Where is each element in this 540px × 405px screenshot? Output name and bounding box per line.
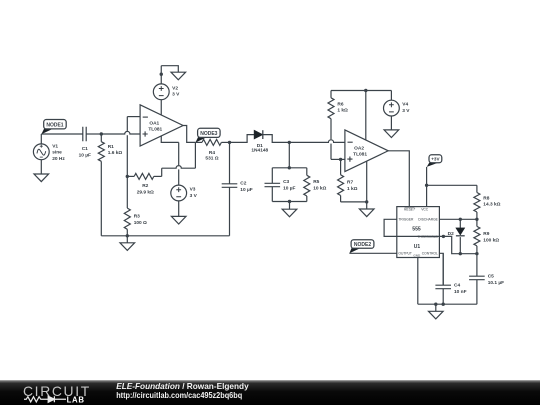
svg-text:R2: R2 [142, 183, 148, 189]
junction dot R9 bottom / C5 top [475, 252, 478, 255]
resistor R2 29.9 kOhm [127, 173, 161, 195]
svg-text:THRESHOLD: THRESHOLD [418, 235, 439, 239]
voltage source V1 sine 20 Hz [0, 0, 65, 162]
wire feedback vertical upper piece [126, 117, 128, 131]
junction dot R3 bottom on rail [126, 234, 129, 237]
wire OA2 V- pin [366, 161, 368, 202]
wire V4 top [390, 91, 392, 101]
svg-text:10 kΩ: 10 kΩ [313, 185, 326, 191]
node NODE2 [349, 240, 374, 254]
svg-text:C5: C5 [488, 274, 494, 280]
junction dot R7 top [339, 158, 342, 161]
resistor R1 1.6 kOhm [98, 134, 122, 236]
svg-text:1 kΩ: 1 kΩ [347, 186, 358, 192]
resistor R4 531 Ohm [195, 139, 229, 161]
svg-text:GND: GND [413, 254, 421, 258]
wire feedback vertical to R2/R3 node [126, 135, 128, 176]
wire tap down to C3/R5 rail [288, 142, 290, 167]
svg-text:100 kΩ: 100 kΩ [483, 237, 499, 243]
wire V3 bottom to ground [178, 201, 180, 217]
junction dot R8/R9 [475, 218, 478, 221]
wire top +3V rail [331, 90, 391, 92]
svg-text:1N4148: 1N4148 [251, 147, 268, 153]
junction dot OA2 V- ground node [365, 200, 368, 203]
svg-text:C3: C3 [283, 179, 289, 185]
svg-text:1 kΩ: 1 kΩ [337, 108, 348, 114]
wire R6 bottom to OA2 plus input [331, 158, 345, 160]
wire +3V branch to R8 [427, 184, 477, 186]
wire OA2 V+ pin [365, 91, 367, 141]
wire V4 bottom to ground [390, 116, 392, 130]
svg-text:TL081: TL081 [353, 152, 367, 158]
wire V2 top to corner [160, 66, 162, 84]
svg-text:10 µF: 10 µF [240, 187, 252, 193]
ground at V1 [34, 174, 49, 182]
svg-text:C2: C2 [240, 181, 246, 187]
svg-text:TRIGGER: TRIGGER [398, 218, 414, 222]
junction dot ground tap on rail [434, 303, 437, 306]
svg-text:R3: R3 [134, 214, 140, 220]
svg-text:C1: C1 [82, 146, 88, 152]
svg-text:10 nF: 10 nF [454, 289, 467, 295]
svg-text:NODE3: NODE3 [200, 131, 217, 137]
wire 555 GND pin [417, 258, 419, 305]
ground at 555 rail [429, 304, 444, 319]
svg-text:V1: V1 [52, 143, 58, 149]
wire C5 bottom rail [418, 303, 477, 305]
wire feedback up to NODE3 junction [194, 142, 196, 168]
net +3V flag [427, 155, 442, 167]
wire C3/R5 bottom rail [272, 201, 307, 203]
wire D2 anode [459, 219, 461, 228]
junction dot R2 left / R3 top [126, 175, 129, 178]
resistor R8 14.3 kOhm [474, 185, 501, 219]
svg-text:10.1 µF: 10.1 µF [488, 280, 504, 286]
voltage source V3 3 V [171, 185, 198, 201]
svg-text:OA1: OA1 [149, 120, 159, 126]
wire feedback horizontal with hop over V3 wire [162, 166, 196, 169]
svg-text:100 Ω: 100 Ω [134, 220, 147, 226]
wire D2 cathode [459, 237, 461, 254]
wire R6 wire below hop [330, 144, 332, 160]
wire DISCHARGE to R8/R9 [439, 218, 477, 220]
IC U1 555 timer body [397, 207, 440, 258]
svg-text:10 µF: 10 µF [283, 185, 295, 191]
ground below OA2 [359, 202, 374, 217]
diode D2 [448, 228, 465, 237]
junction dot +3V branch [425, 184, 428, 187]
resistor R3 100 Ohm [124, 176, 147, 235]
svg-text:+3V: +3V [431, 156, 440, 161]
junction dot C4 bottom [442, 303, 445, 306]
voltage source V4 3 V [384, 100, 411, 116]
svg-text:D2: D2 [448, 231, 454, 237]
svg-text:3 V: 3 V [172, 92, 180, 98]
junction dot THRESHOLD pin [442, 235, 445, 238]
resistor R7 1 kOhm [338, 159, 358, 202]
capacitor C1 10 uF [79, 127, 91, 159]
svg-text:DISCHARGE: DISCHARGE [418, 218, 438, 222]
svg-text:OA2: OA2 [354, 146, 364, 152]
svg-text:3 V: 3 V [402, 108, 410, 114]
svg-text:V4: V4 [402, 102, 408, 108]
svg-text:531 Ω: 531 Ω [205, 156, 218, 162]
wire C3/R5 top rail [272, 167, 307, 169]
capacitor C4 10 nF [435, 253, 466, 304]
wire OA1 V- pin down [161, 136, 178, 143]
voltage source V2 3 V [153, 84, 180, 100]
CircuitLab logo resistor-diode glyph [24, 397, 48, 402]
wire +3V down to 555 VCC [426, 167, 428, 207]
junction dot R4/C2/D1 [228, 141, 231, 144]
ground below R3 [120, 236, 135, 251]
svg-text:NODE2: NODE2 [354, 242, 371, 248]
op-amp OA2 TL081 [345, 130, 388, 172]
junction dot D2 cathode [459, 252, 462, 255]
footer bar background [0, 380, 540, 405]
capacitor C5 10.1 uF [469, 254, 504, 305]
svg-text:R6: R6 [337, 101, 343, 107]
wire OA1 minus input [127, 116, 140, 118]
node NODE1 [41, 120, 66, 135]
resistor R6 1 kOhm [328, 91, 348, 140]
junction dot R1 top [100, 132, 103, 135]
wire V2 corner to ground drop [161, 66, 178, 73]
svg-text:http://circuitlab.com/cac495z2: http://circuitlab.com/cac495z2bq6bq [116, 390, 242, 400]
capacitor C3 10 uF [265, 168, 296, 202]
wire D1 cathode drop [263, 135, 290, 143]
wire down to V3 plus upper piece [178, 142, 180, 165]
wire V1 top to NODE1 junction [40, 134, 42, 144]
junction dot C3/R5 top rail [288, 166, 291, 169]
svg-text:1.6 kΩ: 1.6 kΩ [108, 150, 123, 156]
ground at V2 [171, 72, 186, 80]
wire D1 anode riser [230, 135, 255, 143]
wire CONTROL to C4 [439, 253, 443, 285]
svg-text:R1: R1 [108, 144, 114, 150]
junction dot C3/R5 bottom rail [288, 200, 291, 203]
svg-text:3 V: 3 V [190, 193, 198, 199]
svg-text:TL081: TL081 [148, 126, 162, 132]
wire OA1 V+ pin to V2 [160, 100, 162, 115]
svg-text:10 µF: 10 µF [79, 152, 91, 158]
op-amp OA1 TL081 [140, 105, 183, 146]
wire R7 bottom to OA2 V- node [341, 201, 367, 203]
svg-text:R5: R5 [313, 179, 319, 185]
svg-text:V2: V2 [172, 85, 178, 91]
svg-text:U1: U1 [414, 244, 421, 250]
junction dot D2 anode [459, 218, 462, 221]
svg-text:R4: R4 [209, 150, 215, 156]
wire C1 to R1 top junction [86, 133, 101, 135]
ground at V4 [384, 130, 399, 138]
svg-text:29.9 kΩ: 29.9 kΩ [137, 190, 154, 196]
svg-text:R7: R7 [347, 179, 353, 185]
svg-text:CONTROL: CONTROL [422, 252, 438, 256]
svg-text:20 Hz: 20 Hz [52, 156, 65, 162]
wire V1 bottom to ground [40, 160, 42, 174]
wire NODE1 to C1 left plate [41, 133, 83, 135]
svg-text:C4: C4 [454, 283, 460, 289]
svg-text:R8: R8 [483, 195, 489, 201]
wire OA2 output to 555 RESET [388, 151, 409, 207]
junction dot above V2 [160, 73, 163, 76]
svg-text:OUTPUT: OUTPUT [398, 252, 412, 256]
diode D1 1N4148 [251, 130, 268, 153]
wire signal to OA2 minus input with hop over R6 wire [289, 140, 345, 143]
resistor R5 10 kOhm [304, 168, 327, 202]
wire TRIGGER loop to THRESHOLD [384, 219, 443, 236]
wire 555 OUTPUT to NODE2 [349, 252, 396, 254]
capacitor C2 10 uF [222, 142, 253, 235]
svg-text:VCC: VCC [421, 208, 429, 212]
node NODE3 [196, 128, 221, 142]
svg-text:555: 555 [412, 227, 421, 233]
svg-text:V3: V3 [190, 187, 196, 193]
junction dot D1 to C3/R5 tap [288, 141, 291, 144]
wire bottom rail stage1 [101, 235, 229, 237]
svg-text:RESET: RESET [404, 208, 416, 212]
svg-text:sine: sine [52, 150, 62, 156]
wire THRESHOLD to lower rail [443, 236, 477, 253]
ground below C3/R5 [282, 202, 297, 217]
wire down to V3 plus [178, 169, 180, 185]
svg-text:R9: R9 [483, 231, 489, 237]
svg-text:14.3 kΩ: 14.3 kΩ [483, 202, 500, 208]
junction dot OA2 V+ tap [364, 89, 367, 92]
wire R2 right to feedback corner [161, 168, 163, 176]
wire R1 junction to OA1 plus input with hop over feedback wire [101, 131, 140, 134]
ground at V3 [171, 216, 186, 224]
overline of RESET [405, 206, 415, 208]
resistor R9 100 kOhm [474, 219, 499, 253]
svg-text:LAB: LAB [67, 396, 85, 405]
svg-text:NODE1: NODE1 [46, 123, 63, 129]
wire OA1 output to NODE3 [183, 126, 195, 143]
